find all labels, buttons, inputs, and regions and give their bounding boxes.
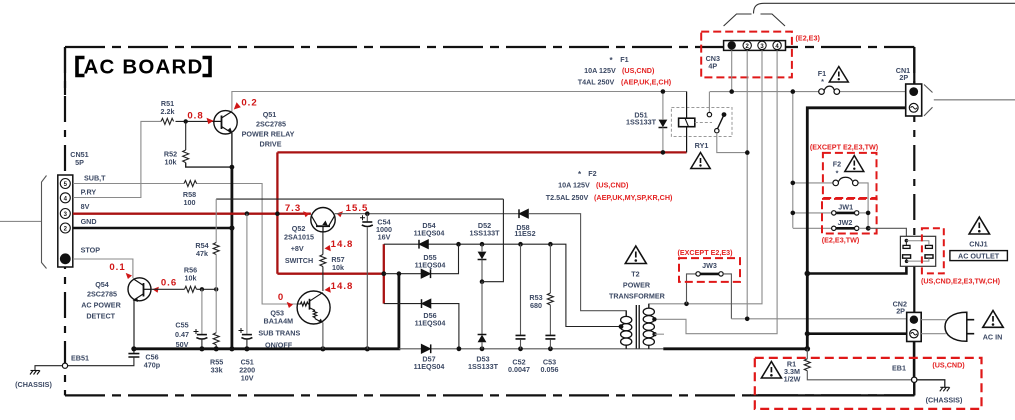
red dashed box JW3 (EXCEPT E2,E3) xyxy=(679,258,740,282)
label Q54 2SC2785 AC POWER DETECT xyxy=(81,280,121,321)
label R1 3.3M 1/2W xyxy=(784,360,801,384)
svg-text:C55: C55 xyxy=(175,321,188,330)
svg-text:(CHASSIS): (CHASSIS) xyxy=(926,396,963,405)
warning triangle AC IN xyxy=(983,311,1003,328)
transistor Q53 (digital) xyxy=(297,291,330,324)
svg-text:7.3: 7.3 xyxy=(285,203,301,214)
jumper JW2 xyxy=(793,226,868,230)
svg-text:0.1: 0.1 xyxy=(109,262,125,273)
label D57 11EQS04 xyxy=(414,355,445,372)
wire: secondary unused tap stub xyxy=(655,333,664,335)
wire: EB1 to chassis right xyxy=(917,380,945,388)
label CN3 4P xyxy=(706,54,720,71)
wire: N to AC outlet bottom xyxy=(807,261,906,273)
label D51 1SS133T xyxy=(626,111,657,127)
wire: branch from R54 line down to D52/D53 xyxy=(482,199,503,282)
svg-text:10k: 10k xyxy=(185,274,197,283)
node: D51 junctions xyxy=(661,89,666,94)
svg-text:1SS133T: 1SS133T xyxy=(468,362,499,371)
label R52 10k xyxy=(164,150,177,167)
connector CN2 xyxy=(907,312,922,341)
wire: CN3 pin3 column to transformer secondary top xyxy=(649,50,762,308)
svg-text:T2: T2 xyxy=(631,270,639,279)
transistor Q52 xyxy=(311,208,335,232)
node: C55 junction xyxy=(200,287,204,291)
red value 15.5 xyxy=(337,203,369,217)
svg-text:33k: 33k xyxy=(211,366,223,375)
svg-text:10k: 10k xyxy=(332,263,344,272)
wire: Q53 emitter to bus xyxy=(322,323,324,349)
red value 14.8 upper xyxy=(325,239,354,251)
svg-text:Q54: Q54 xyxy=(95,280,109,289)
svg-text:*: * xyxy=(836,169,839,178)
svg-text:F2: F2 xyxy=(833,160,841,169)
svg-text:2.2k: 2.2k xyxy=(161,107,175,116)
node: relay output junction xyxy=(745,150,750,155)
wire: GND thick rail vertical xyxy=(230,167,233,349)
svg-text:11ES2: 11ES2 xyxy=(514,229,535,238)
svg-text:*: * xyxy=(821,77,824,86)
wire: Q51 collector up and right to relay coil xyxy=(232,92,687,112)
svg-text:2P: 2P xyxy=(896,307,905,316)
node: thick vertical top junction xyxy=(397,271,402,276)
diode D52 xyxy=(478,244,487,282)
label R55 33k xyxy=(210,358,223,375)
svg-text:(CHASSIS): (CHASSIS) xyxy=(15,380,52,389)
svg-text:(AEP,UK,MY,SP,KR,CH): (AEP,UK,MY,SP,KR,CH) xyxy=(594,193,673,202)
svg-text:JW3: JW3 xyxy=(702,261,717,270)
label C51 2200 10V xyxy=(239,358,255,383)
svg-text:(US,CND): (US,CND) xyxy=(596,181,629,190)
svg-text:TRANSFORMER: TRANSFORMER xyxy=(609,292,666,301)
wire: red horizontal to relay coil xyxy=(277,151,686,153)
svg-text:15.5: 15.5 xyxy=(346,203,369,214)
wire: P.RY net xyxy=(73,121,161,197)
node: N junctions xyxy=(805,271,811,277)
label R56 10k xyxy=(184,266,197,283)
svg-text:DRIVE: DRIVE xyxy=(260,140,282,149)
svg-text:DETECT: DETECT xyxy=(86,312,115,321)
jumper JW3 xyxy=(687,272,732,319)
svg-text:0.0047: 0.0047 xyxy=(508,365,530,374)
label Q51 2SC2785 POWER RELAY DRIVE xyxy=(242,110,295,149)
node: F2 branch junction xyxy=(791,181,796,186)
svg-text:AC BOARD: AC BOARD xyxy=(83,56,203,79)
capacitor C55 xyxy=(194,289,208,349)
AC plug symbol xyxy=(945,312,974,341)
warning triangle R1 xyxy=(761,362,781,379)
fuse F2 xyxy=(833,177,858,185)
svg-text:Q51: Q51 xyxy=(263,110,277,119)
svg-text:2P: 2P xyxy=(899,73,908,82)
wire: CN3 pin4 column to secondary tap xyxy=(654,50,777,333)
svg-text:1SS133T: 1SS133T xyxy=(470,229,501,238)
transistor Q54 xyxy=(128,278,151,302)
red value 14.8 lower xyxy=(325,281,354,293)
wire: EB1 down to border corner xyxy=(913,382,915,395)
svg-text:0.6: 0.6 xyxy=(161,278,177,289)
svg-text:2SC2785: 2SC2785 xyxy=(256,120,286,129)
wire: cable bundle brace above CN3 xyxy=(724,3,1015,26)
svg-text:2SC2785: 2SC2785 xyxy=(87,290,117,299)
label R53 680 xyxy=(529,293,542,310)
wire: red diode-matrix vertical xyxy=(383,244,385,303)
wire: Q54 collector right xyxy=(151,288,185,290)
svg-text:11EQS04: 11EQS04 xyxy=(414,229,445,238)
label C54 1000 16V xyxy=(376,218,392,242)
label C52 0.0047 xyxy=(508,358,530,375)
svg-text:16V: 16V xyxy=(378,233,391,242)
svg-text:47k: 47k xyxy=(196,249,208,258)
svg-text:AC IN: AC IN xyxy=(983,333,1003,342)
wire: D56 line xyxy=(384,304,459,349)
wire: F1 feed line xyxy=(710,91,906,93)
svg-text:(AEP,UK,E,CH): (AEP,UK,E,CH) xyxy=(621,78,672,87)
node: emitter/R52 junction xyxy=(230,165,235,170)
svg-text:(US,CND,E2,E3,TW,CH): (US,CND,E2,E3,TW,CH) xyxy=(921,277,1001,286)
node: secondary top junction xyxy=(684,302,689,307)
wire: D58 output to transformer primary top xyxy=(528,214,626,317)
red value 0.6 xyxy=(153,278,178,293)
red dashed box CN3 (E2,E3) xyxy=(701,32,792,78)
node: top line junctions xyxy=(456,242,553,247)
connector CN51 xyxy=(58,175,73,267)
svg-text:10A 125V: 10A 125V xyxy=(584,66,616,75)
label C53 0.056 xyxy=(541,358,559,375)
wire: L line to CN2 pin1 xyxy=(731,318,907,320)
node: D52/D53 midpoint xyxy=(480,279,485,284)
warning triangle CNJ1 xyxy=(969,217,989,234)
CN1 mating bracket xyxy=(924,85,933,116)
node EB1 eyelet xyxy=(912,377,917,382)
red value 0.1 xyxy=(109,262,132,279)
label D55 11EQS04 xyxy=(415,253,446,270)
svg-text:ON/OFF: ON/OFF xyxy=(265,341,293,350)
node: Q51 base junction xyxy=(184,119,188,123)
svg-text:10A 125V: 10A 125V xyxy=(558,181,590,190)
svg-text:0.2: 0.2 xyxy=(241,98,257,109)
label Q52 2SA1015 +8V SWITCH xyxy=(284,224,314,265)
transformer T2 primary winding xyxy=(621,311,632,349)
connector CN1 xyxy=(906,84,922,116)
wire: +B top line xyxy=(384,244,620,326)
diode D53 xyxy=(478,282,487,349)
svg-text:BA1A4M: BA1A4M xyxy=(264,317,294,326)
svg-text:T2.5AL 250V: T2.5AL 250V xyxy=(546,193,589,202)
transformer core xyxy=(636,305,639,349)
label fuse F2 ratings xyxy=(546,169,673,202)
label fuse F1 ratings xyxy=(578,55,672,87)
wire: D55 line xyxy=(384,244,459,274)
pin labels xyxy=(81,174,107,255)
wire: SUB,T net xyxy=(73,184,297,305)
fuse F1 xyxy=(819,86,840,94)
node: R54/R55 junction xyxy=(214,287,218,291)
node: secondary taps xyxy=(652,317,656,321)
svg-text:1SS133T: 1SS133T xyxy=(626,118,657,127)
svg-text:EB1: EB1 xyxy=(892,364,906,373)
svg-text:8V: 8V xyxy=(81,202,90,211)
svg-text:470p: 470p xyxy=(144,361,161,370)
svg-text:POWER: POWER xyxy=(623,281,651,290)
svg-text:1/2W: 1/2W xyxy=(784,375,801,384)
node: F1 line to F2 branch xyxy=(791,89,796,94)
node: pin2 column end xyxy=(745,317,750,322)
svg-text:POWER RELAY: POWER RELAY xyxy=(242,130,295,139)
svg-text:SUB TRANS: SUB TRANS xyxy=(258,329,300,338)
wire: CN2 pins to plug xyxy=(921,320,946,334)
wire: ground bus thick xyxy=(134,274,399,349)
wire: CN1 cable off right edge xyxy=(934,99,1015,101)
warning triangle F2 xyxy=(845,156,864,172)
svg-text:JW1: JW1 xyxy=(838,203,853,212)
svg-text:4P: 4P xyxy=(708,62,717,71)
wire: 8V red rail xyxy=(73,213,311,215)
title AC BOARD xyxy=(77,56,210,79)
node: JW2 right junction xyxy=(866,226,871,231)
ground (CHASSIS) right symbol xyxy=(940,387,950,391)
red value 0 xyxy=(278,292,293,308)
svg-text:(US,CND): (US,CND) xyxy=(932,361,965,370)
svg-text:T4AL 250V: T4AL 250V xyxy=(578,78,615,87)
svg-text:0.8: 0.8 xyxy=(187,111,203,122)
CN51 mating bracket xyxy=(42,176,47,269)
svg-text:11EQS04: 11EQS04 xyxy=(415,319,446,328)
wire: Q52 collector to C54/D58 xyxy=(335,213,519,215)
resistor R58 xyxy=(184,181,197,187)
label T2 POWER TRANSFORMER xyxy=(609,270,666,301)
capacitor C52 xyxy=(516,244,526,349)
diode D58 xyxy=(519,209,528,218)
resistor R53 + capacitor C53 column xyxy=(545,244,555,349)
wire: N thick line from CN1 pin2 xyxy=(807,108,905,349)
wire: red vertical relay-coil feed xyxy=(276,152,278,273)
red dashed box outlet (US,...) xyxy=(922,228,944,273)
wire: Q51 emitter down xyxy=(231,133,233,167)
svg-text:EB51: EB51 xyxy=(71,354,89,363)
svg-text:(US,CND): (US,CND) xyxy=(622,66,655,75)
node: GND junction xyxy=(229,225,234,230)
wire: R56 to R54 column xyxy=(197,288,217,290)
label D54 11EQS04 xyxy=(414,221,445,238)
label R51 2.2k xyxy=(161,99,175,116)
label R58 100 xyxy=(183,190,196,207)
wire: ground bus thin continues xyxy=(399,348,663,350)
red value 0.2 xyxy=(234,98,258,110)
node: bus junction dots xyxy=(131,346,370,351)
diode D57 on bus xyxy=(421,344,430,353)
svg-text:STOP: STOP xyxy=(81,246,101,255)
svg-text:11EQS04: 11EQS04 xyxy=(415,261,446,270)
label Q53 BA1A4M SUB TRANS ON/OFF xyxy=(258,309,300,350)
wire: CN2 pin2 column down to EB1 xyxy=(913,342,915,378)
svg-text:SWITCH: SWITCH xyxy=(285,256,313,265)
resistor R1 xyxy=(804,349,912,380)
red dashed box JW1/JW2 (E2,E3,TW) xyxy=(822,199,877,234)
wire: cable exiting left edge to CN51 bracket xyxy=(0,220,42,222)
wire: GND from CN51 xyxy=(73,227,232,230)
transformer T2 secondary winding xyxy=(643,304,654,349)
wire: JW2 to AC outlet xyxy=(868,228,906,240)
svg-text:14.8: 14.8 xyxy=(331,239,354,250)
svg-text:(E2,E3): (E2,E3) xyxy=(796,34,821,43)
node: bus junction D56/D53 columns xyxy=(457,346,553,351)
resistor R57 xyxy=(320,232,326,291)
resistor R54 xyxy=(213,199,219,289)
wire: Q54 emitter to bus xyxy=(133,301,135,349)
relay RY1 xyxy=(671,92,747,153)
svg-text:2SA1015: 2SA1015 xyxy=(284,233,314,242)
red value 7.3 xyxy=(285,203,310,217)
capacitor C51 xyxy=(239,214,253,349)
wire: EB51 to chassis xyxy=(35,366,62,371)
svg-text:0.47: 0.47 xyxy=(175,330,189,339)
ground (CHASSIS) symbol xyxy=(30,371,40,375)
svg-text:(EXCEPT E2,E3,TW): (EXCEPT E2,E3,TW) xyxy=(810,143,879,152)
red dashed box F2 (EXCEPT E2,E3,TW) xyxy=(823,153,877,198)
svg-text:GND: GND xyxy=(81,217,97,226)
diode D51 xyxy=(659,92,668,153)
svg-text:100: 100 xyxy=(184,198,196,207)
label D53 1SS133T xyxy=(468,355,499,372)
wire: F2/JW feed column xyxy=(792,92,794,228)
svg-text:F2: F2 xyxy=(588,169,596,178)
node: pin1/F1 junction xyxy=(729,89,734,94)
capacitor C56 xyxy=(68,349,140,366)
svg-text:(E2,E3,TW): (E2,E3,TW) xyxy=(822,236,860,245)
svg-text:680: 680 xyxy=(530,301,542,310)
label D58 11ES2 xyxy=(514,223,535,238)
wire: R51 to Q51 base xyxy=(176,120,215,122)
resistor R56 xyxy=(185,286,197,292)
svg-text:14.8: 14.8 xyxy=(331,281,354,292)
wire: CN3 pin2 column xyxy=(746,50,748,318)
warning triangle RY1 xyxy=(691,153,710,169)
node: JW1 junctions xyxy=(791,211,796,216)
svg-text:+8V: +8V xyxy=(291,244,304,253)
svg-text:0.056: 0.056 xyxy=(541,365,559,374)
node: primary mid tap xyxy=(619,324,624,329)
svg-text:5P: 5P xyxy=(75,158,84,167)
label CN2 2P xyxy=(893,300,907,316)
svg-text:AC POWER: AC POWER xyxy=(81,301,121,310)
svg-text:0: 0 xyxy=(278,292,284,303)
label CN51 5P xyxy=(70,150,88,167)
svg-text:CNJ1: CNJ1 xyxy=(969,240,987,249)
node: C54 top xyxy=(365,211,370,216)
wire: F2 row xyxy=(793,183,868,228)
capacitor C54 xyxy=(360,214,373,349)
diode D55 xyxy=(421,269,430,278)
svg-text:11EQS04: 11EQS04 xyxy=(414,362,445,371)
AC outlet CNJ1 xyxy=(900,236,935,266)
label R54 47k xyxy=(195,241,208,258)
svg-text:F1: F1 xyxy=(620,55,628,64)
connector CN3 xyxy=(724,41,786,51)
label D56 11EQS04 xyxy=(415,311,446,328)
svg-text:SUB,T: SUB,T xyxy=(84,174,106,183)
resistor R55 xyxy=(213,289,219,349)
wire: red lower horizontal xyxy=(277,273,383,275)
diode D56 xyxy=(422,299,431,308)
transistor Q51 xyxy=(214,111,237,134)
svg-text:10k: 10k xyxy=(165,158,177,167)
label D52 1SS133T xyxy=(470,221,501,238)
svg-text:P.RY: P.RY xyxy=(81,188,97,197)
label CN1 2P xyxy=(896,66,910,82)
svg-text:(EXCEPT E2,E3): (EXCEPT E2,E3) xyxy=(677,248,733,257)
diode D54 xyxy=(419,240,428,249)
jumper JW1 xyxy=(793,211,868,215)
label R57 10k xyxy=(331,255,344,272)
label C56 470p xyxy=(144,353,161,370)
transformer T2 warning triangle xyxy=(625,246,646,264)
wire: R54 top line to D52 column xyxy=(216,198,503,200)
resistor R51 xyxy=(161,118,174,124)
wire: STOP net to Q54 xyxy=(73,259,133,278)
red dashed box R1/EB1 (US,CND) xyxy=(755,358,982,409)
red value 0.8 xyxy=(187,111,213,125)
svg-text:RY1: RY1 xyxy=(695,141,709,150)
resistor R52 xyxy=(183,121,232,167)
svg-text:10V: 10V xyxy=(241,374,254,383)
node EB51 eyelet xyxy=(62,363,67,368)
svg-text:AC OUTLET: AC OUTLET xyxy=(958,251,1000,260)
label AC OUTLET boxed xyxy=(950,251,1008,261)
wire: CN3 pin1 drop xyxy=(731,50,733,91)
board border frame (dash-dot) xyxy=(65,47,914,395)
wire: N to CN2 pin2 xyxy=(807,332,907,335)
label C55 0.47 50V xyxy=(175,321,189,349)
wire: bus thick right portion xyxy=(663,347,807,350)
node: 8V junctions xyxy=(245,211,250,216)
warning triangle F1 xyxy=(829,67,848,83)
svg-text:JW2: JW2 xyxy=(838,218,853,227)
